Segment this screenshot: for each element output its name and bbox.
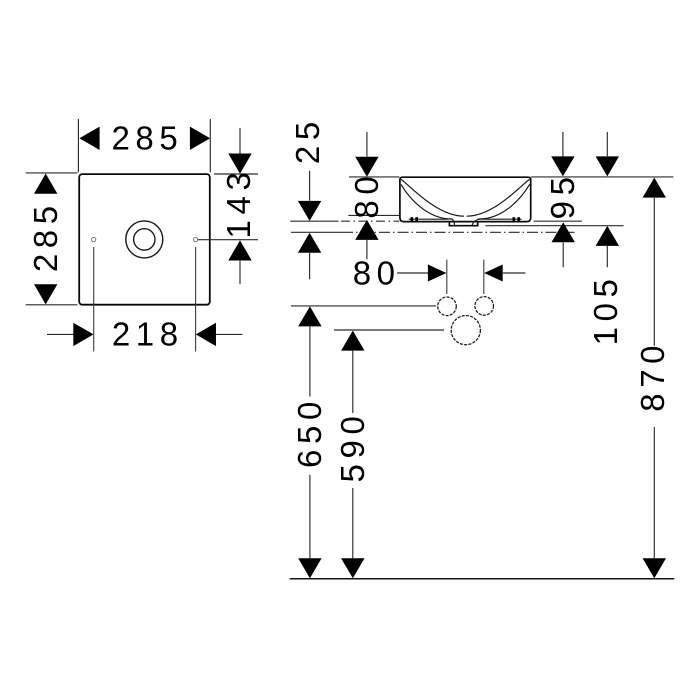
650 reference line to circle A: [291, 305, 436, 307]
dim 143: top extension line: [214, 173, 258, 175]
dim 870: top arrowhead: [643, 178, 666, 198]
dim 285 top: right arrowhead: [190, 127, 210, 150]
dim 870: bottom arrowhead: [643, 558, 666, 578]
dim 95: up arrowhead: [552, 222, 575, 242]
dim 80 vertical: upper leader line: [366, 132, 368, 157]
dim 80 horizontal: right leader line: [503, 272, 526, 274]
bowl inner wall right curve: [467, 179, 530, 216]
dim 590: lower stem: [352, 488, 354, 558]
dim 143: top leader line: [239, 128, 241, 154]
dim 80 vertical: up arrowhead: [355, 220, 378, 240]
rim level line right segment: [531, 176, 673, 178]
svg-text:590: 590: [334, 411, 371, 483]
drain inner circle: [134, 229, 155, 250]
dim 95: upper leader line: [562, 132, 564, 156]
countertop line right solid segment: [534, 220, 583, 222]
left faucet hole: [92, 237, 96, 241]
svg-text:218: 218: [112, 316, 184, 353]
bowl outer wall right curve with drain funnel tail: [472, 184, 530, 225]
svg-text:870: 870: [634, 340, 671, 412]
svg-text:285: 285: [27, 200, 64, 272]
dim 650: upper stem: [309, 327, 311, 397]
drain flange bottom reference line: [486, 225, 624, 227]
mounting clip right pair: [513, 217, 516, 221]
dim 25: down arrowhead: [298, 201, 321, 221]
mounting plate line right: [478, 218, 522, 220]
faucet hole circle A (dashed): [438, 297, 457, 316]
right hole extension line down: [195, 247, 197, 352]
dim 80 horizontal: left arrowhead pointing left: [484, 265, 503, 282]
dim 218: right leader line: [215, 333, 242, 335]
svg-text:80: 80: [348, 171, 385, 219]
dim 143: top arrowhead: [228, 154, 251, 174]
centerline solid left segment: [291, 231, 342, 233]
spout hole circle C (dashed): [451, 316, 480, 345]
svg-text:95: 95: [544, 171, 581, 219]
faucet hole circle B (dashed): [475, 297, 494, 316]
dim 80 horizontal: right hole axis line: [483, 260, 485, 294]
dim 95: lower leader line: [562, 243, 564, 268]
extension line top-right vertical: [209, 119, 211, 172]
mounting plate line left: [409, 218, 449, 220]
dim 218: left leader line: [47, 333, 74, 335]
svg-text:650: 650: [291, 396, 328, 468]
bowl inner wall left curve: [401, 179, 464, 216]
dim 105: down arrowhead: [596, 156, 619, 176]
extension line left-top horizontal: [26, 172, 78, 174]
svg-text:105: 105: [587, 273, 624, 345]
dim 80 vertical: down arrowhead: [355, 157, 378, 177]
dim 650: top arrowhead: [298, 306, 321, 326]
dim 105: up arrowhead: [596, 226, 619, 246]
extension line left-bottom horizontal: [26, 304, 78, 306]
dim 218: left arrowhead: [73, 323, 93, 346]
dim 80 horizontal: left leader line: [397, 272, 428, 274]
dim 143: bottom extension line: [198, 239, 258, 241]
rim level line left segment: [349, 176, 399, 178]
dim 80 horizontal: right arrowhead pointing right: [428, 265, 447, 282]
floor line: [290, 578, 675, 580]
dim 25: lower leader line: [309, 253, 311, 279]
drain flange tab below basin: [449, 222, 477, 226]
basin outline (side view): [400, 177, 531, 221]
right faucet hole: [194, 237, 198, 241]
countertop line left solid segment: [290, 220, 338, 222]
dim 285 left: bottom arrowhead: [34, 284, 57, 304]
dim 25: up arrowhead: [298, 233, 321, 253]
dim 105: lower leader line: [606, 246, 608, 267]
dim 80 vertical: lower leader line: [366, 240, 368, 259]
drain outer circle: [126, 221, 163, 258]
dim 590: upper stem: [352, 351, 354, 413]
dim 870: upper stem: [653, 198, 655, 346]
dim 80 horizontal: left hole axis line: [446, 260, 448, 294]
dim 650: bottom arrowhead: [298, 558, 321, 578]
dim 105: upper leader line: [606, 132, 608, 156]
reference line 80mm below rim: [348, 214, 399, 216]
dim 143: bottom arrowhead: [228, 240, 251, 260]
svg-text:143: 143: [220, 167, 257, 239]
dim 650: lower stem: [309, 475, 311, 558]
dim 870: lower stem: [653, 427, 655, 558]
basin square outline (top view): [79, 174, 210, 305]
dim 590: top arrowhead: [341, 331, 364, 351]
svg-text:80: 80: [353, 254, 401, 291]
svg-text:285: 285: [111, 120, 183, 157]
extension line top-left vertical: [77, 119, 79, 172]
590 reference line to circle C: [334, 329, 444, 331]
dim 285 top: left arrowhead: [79, 127, 99, 150]
centerline dash-dot segment: [342, 231, 575, 233]
svg-text:25: 25: [289, 116, 326, 164]
dim 285 left: top arrowhead: [34, 174, 57, 194]
mounting clip left pair: [411, 217, 414, 221]
dim 590: bottom arrowhead: [341, 558, 364, 578]
bowl outer wall left curve with drain funnel tail: [401, 184, 455, 225]
left hole extension line down: [93, 247, 95, 352]
countertop line dashed segment under basin: [341, 220, 399, 222]
dim 25: upper leader line: [309, 171, 311, 201]
dim 218: right arrowhead: [196, 323, 216, 346]
dim 143: bottom leader line: [239, 261, 241, 284]
dim 95: down arrowhead: [551, 156, 574, 176]
